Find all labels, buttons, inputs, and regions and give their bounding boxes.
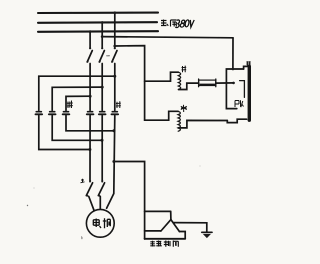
knife switch QS blade pole 3: [111, 47, 117, 62]
electromagnet armature bar: [248, 66, 251, 120]
wire dip under magnet: [227, 119, 246, 122]
brake base right step: [179, 232, 185, 239]
QS linkage dashes: [107, 55, 110, 57]
brake shoe right slope: [171, 220, 180, 232]
label 电源 (pseudo glyphs): [161, 20, 177, 27]
contactor KM1 main contact phase1: [87, 112, 94, 115]
contactor KM2 main contact pole2: [49, 112, 56, 115]
junction feed on box top: [232, 68, 235, 71]
wire resistor to magnet box: [216, 82, 234, 84]
wire tap B to coil branches: [115, 46, 145, 121]
wire crossover bottom pole3 to line3: [66, 116, 114, 131]
switch blade near motor line2: [98, 180, 104, 209]
wire phase3 below QS: [114, 64, 116, 111]
wire drop phase L1: [114, 13, 116, 48]
wire crossover bottom pole2 to line2: [52, 116, 102, 141]
speckle: [200, 166, 201, 167]
brake frame mid bar: [145, 230, 161, 232]
speckle: [27, 205, 28, 206]
coil 1 wire out: [179, 83, 199, 89]
wire motor line3: [107, 116, 115, 209]
wire feed down to magnet box: [232, 38, 234, 69]
supply line L3: [38, 30, 158, 33]
wire motor line2: [101, 116, 103, 182]
label coil1 (pseudo glyph): [182, 66, 187, 73]
wire crossover top pole2 to L2: [52, 87, 102, 110]
speckle: [107, 56, 108, 57]
label KM2 (left contactor, pseudo glyph): [67, 101, 73, 109]
label 380V: [175, 20, 194, 28]
wire tap A to electromagnet feed: [102, 37, 233, 38]
coil 1 (brake magnet coil): [178, 72, 180, 89]
node L1 tap: [113, 11, 116, 14]
coil branch 2 wire in: [145, 111, 179, 120]
label motor 电机 (pseudo glyphs): [93, 218, 110, 228]
wire crossover bottom pole1 to line1: [39, 116, 90, 150]
motor M circle: [86, 209, 114, 237]
contactor KM2 main contact pole1: [36, 112, 43, 115]
node L3 tap: [89, 30, 92, 33]
brake frame top bar: [145, 210, 171, 212]
label 吸 inside magnet (pseudo glyphs): [235, 100, 244, 107]
brake lever stem: [170, 211, 172, 219]
node L2 tap: [101, 21, 104, 24]
label small switch mark: [81, 179, 85, 183]
coil branch 1 wire in: [145, 72, 179, 81]
speckle: [81, 237, 84, 240]
electromagnet box: [226, 66, 247, 108]
wire brake tap from line3: [114, 162, 145, 240]
label magnet top (pseudo glyph): [246, 61, 251, 67]
resistor R: [199, 79, 216, 87]
knife switch QS blade pole 1: [87, 47, 93, 62]
supply line L2: [38, 21, 157, 24]
brake shoe left slope: [161, 220, 171, 231]
label KM1 (right contactor, pseudo glyph): [116, 101, 121, 108]
wire phase2 below QS: [101, 64, 103, 111]
brake base bottom: [145, 238, 186, 240]
wire to ground: [173, 223, 207, 232]
contactor KM1 main contact phase3: [112, 112, 119, 115]
wire drop phase L3: [89, 32, 91, 48]
wire drop phase L2: [101, 23, 103, 48]
wire crossover top pole3 to L3: [66, 96, 90, 110]
wire phase1 below QS: [89, 64, 91, 111]
knife switch QS blade pole 2: [99, 47, 105, 62]
wire crossover top pole1 to L1: [39, 76, 115, 110]
ground: [202, 232, 212, 237]
switch blade near motor line1: [86, 180, 94, 210]
supply line L1: [38, 12, 158, 14]
wire motor line1: [89, 116, 91, 182]
label coil2 (pseudo glyph): [181, 105, 187, 112]
coil 2 wire out: [178, 120, 227, 128]
contactor KM2 main contact pole3: [63, 112, 70, 115]
speckle: [34, 188, 35, 189]
label 电磁抱闸 (pseudo glyphs): [150, 241, 178, 247]
contactor KM1 main contact phase2: [99, 112, 106, 115]
coil 2 (brake magnet coil): [178, 111, 180, 131]
